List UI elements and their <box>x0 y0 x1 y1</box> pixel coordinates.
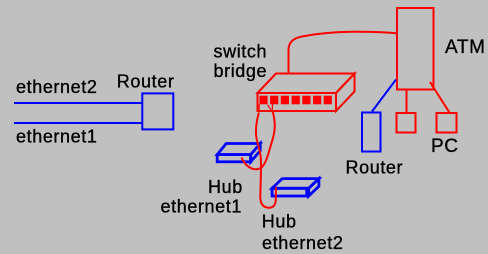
wire stub port1 to hub2 wire (crosses switch face) <box>258 104 260 112</box>
wire switch to hub1 <box>242 112 275 169</box>
hub1 3D box <box>217 144 260 162</box>
hub2 3D box <box>272 179 319 196</box>
switch ports (7 squares) <box>259 96 332 105</box>
ATM box <box>397 8 434 90</box>
svg-text:ATM: ATM <box>445 37 486 58</box>
svg-text:bridge: bridge <box>214 61 268 81</box>
svg-text:ethernet2: ethernet2 <box>262 233 343 253</box>
PC1 box <box>397 113 416 133</box>
wire ethernet1 <box>14 122 142 124</box>
wire stub port2 (crosses switch face) <box>271 104 273 111</box>
svg-text:Hub: Hub <box>262 212 297 232</box>
wire stub port1 to hub1 wire (crosses switch face) <box>268 105 273 112</box>
wire ATM to PC2 <box>430 82 449 112</box>
wire ethernet2 <box>14 102 142 104</box>
svg-text:PC: PC <box>431 136 459 157</box>
svg-text:Router: Router <box>117 72 175 92</box>
svg-text:ethernet1: ethernet1 <box>161 197 242 217</box>
svg-text:ethernet2: ethernet2 <box>16 77 97 97</box>
svg-text:switch: switch <box>214 41 268 61</box>
wire ATM to PC1 <box>406 91 408 114</box>
wire switch to hub2 <box>256 113 276 208</box>
wire switch to ATM <box>289 32 397 73</box>
svg-text:Router: Router <box>346 158 404 178</box>
svg-text:Hub: Hub <box>208 177 243 197</box>
svg-text:ethernet1: ethernet1 <box>16 127 97 147</box>
router box (left) <box>142 93 173 129</box>
PC2 box <box>437 113 457 133</box>
switch/bridge 3D box <box>258 74 355 112</box>
router box (right) <box>362 113 381 152</box>
wire router to ATM (blue) <box>372 80 396 112</box>
